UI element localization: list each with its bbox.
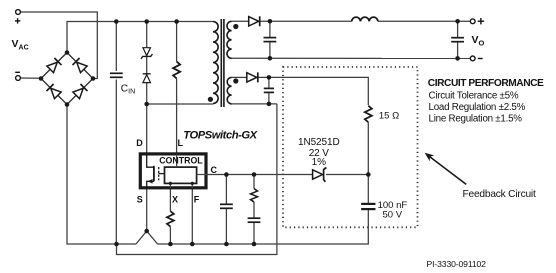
svg-text:C: C [211,165,218,175]
svg-text:1N5251D: 1N5251D [298,137,340,148]
svg-text:1%: 1% [312,157,326,168]
svg-text:D: D [136,138,143,148]
svg-text:CONTROL: CONTROL [159,156,203,166]
svg-text:Circuit Tolerance ±5%: Circuit Tolerance ±5% [429,91,519,102]
svg-text:F: F [194,194,200,204]
svg-text:Load Regulation ±2.5%: Load Regulation ±2.5% [429,102,526,113]
svg-text:X: X [172,195,178,205]
svg-text:S: S [137,194,143,204]
svg-text:50 V: 50 V [383,209,403,220]
svg-text:PI-3330-091102: PI-3330-091102 [427,259,487,269]
svg-text:CIRCUIT PERFORMANCE: CIRCUIT PERFORMANCE [428,78,544,89]
svg-text:Feedback Circuit: Feedback Circuit [463,189,536,200]
svg-text:L: L [178,138,184,148]
svg-text:Line Regulation ±1.5%: Line Regulation ±1.5% [429,113,523,124]
svg-text:TOPSwitch-GX: TOPSwitch-GX [183,130,258,142]
svg-text:15 Ω: 15 Ω [379,111,399,122]
